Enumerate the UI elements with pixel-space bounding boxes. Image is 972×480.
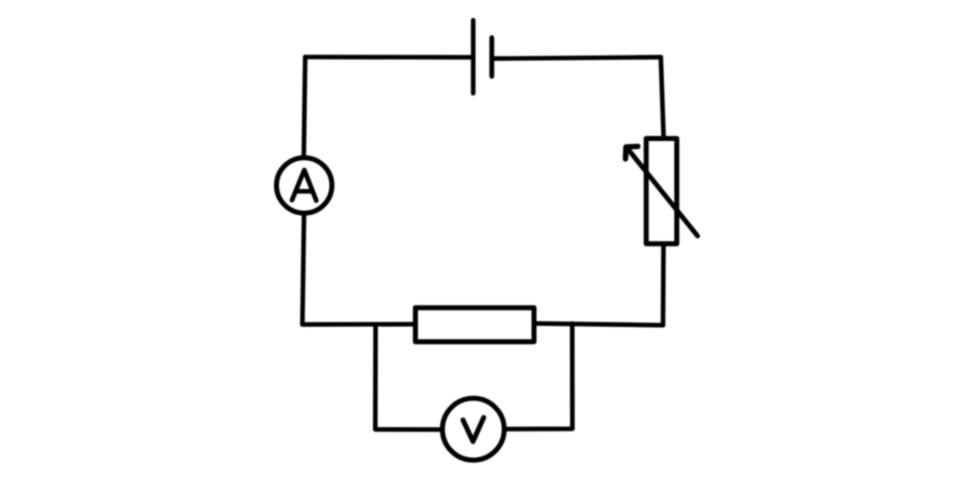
wire right upper (corner to rheostat)	[661, 57, 664, 136]
wire left lower (ammeter to bottom corner)	[302, 215, 304, 324]
voltmeter branch right wire	[507, 324, 572, 430]
variable resistor R2 body	[646, 139, 677, 244]
wire right lower (rheostat to bottom corner)	[661, 246, 666, 325]
wire top-left (battery to left corner)	[305, 55, 471, 60]
voltmeter branch left wire	[375, 324, 440, 429]
voltmeter U2 circle	[442, 398, 504, 460]
wire top-right (battery to right corner)	[494, 57, 661, 58]
wire left upper (top corner to ammeter)	[304, 57, 305, 156]
wire bottom-left (resistor to left corner)	[302, 322, 415, 327]
wire bottom-right (corner to resistor)	[535, 323, 664, 325]
voltmeter label V	[463, 418, 484, 442]
ammeter U1 circle	[277, 158, 332, 213]
battery cell B1 short plate	[489, 38, 494, 77]
battery cell B1 long plate	[471, 20, 476, 93]
variable resistor arrowhead	[626, 146, 638, 159]
variable resistor arrow shaft	[627, 147, 698, 236]
ammeter label A	[292, 170, 316, 201]
resistor R1 body	[415, 308, 534, 342]
